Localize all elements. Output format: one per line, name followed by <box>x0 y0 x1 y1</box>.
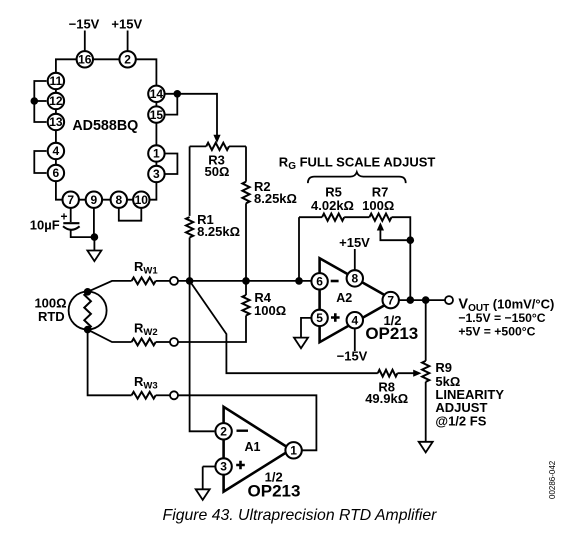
wire R2 to R4 <box>245 203 247 295</box>
pin 3 <box>148 166 164 182</box>
svg-text:4: 4 <box>351 313 358 327</box>
pin 10 <box>133 192 149 208</box>
pin 4 A2 V- <box>347 312 363 328</box>
svg-text:+15V: +15V <box>111 17 142 32</box>
wire A2 output to terminal <box>399 299 445 301</box>
connector terminal RW2 <box>170 338 178 346</box>
svg-text:8.25kΩ: 8.25kΩ <box>254 191 297 206</box>
wire left rail R3 to R1 <box>189 146 191 216</box>
svg-text:+5V = +500°C: +5V = +500°C <box>458 325 535 339</box>
resistor R8 49.9k <box>378 370 398 377</box>
wire R8 to R9 wiper <box>397 372 414 374</box>
svg-text:2: 2 <box>220 425 227 439</box>
wire -15V to pin 16 <box>84 31 86 51</box>
svg-text:2: 2 <box>124 53 131 67</box>
pin 6 <box>48 165 64 181</box>
A1 plus sign <box>236 461 245 470</box>
svg-text:4: 4 <box>53 144 60 158</box>
svg-text:A1: A1 <box>245 440 261 454</box>
wire R5 to R7 <box>344 216 369 218</box>
pin 5 A2 noninverting <box>311 310 327 326</box>
junction R5 rail / pin 6 <box>295 277 303 285</box>
op-amp A2 triangle <box>320 258 394 342</box>
pin 1 <box>148 145 164 161</box>
svg-text:50Ω: 50Ω <box>205 164 230 179</box>
pin 2 <box>119 51 135 67</box>
wire A2 pin 5 to ground <box>301 318 311 338</box>
svg-text:RW2: RW2 <box>134 321 158 339</box>
wire to ground symbol <box>93 237 95 250</box>
svg-text:10: 10 <box>135 193 149 207</box>
resistor R7 100 ohm trimmer <box>369 214 391 221</box>
wire capacitor to ground node <box>71 230 95 237</box>
svg-text:8.25kΩ: 8.25kΩ <box>197 224 240 239</box>
pin 8 <box>111 192 127 208</box>
wire pin 15 tie <box>165 94 177 115</box>
resistor RW3 <box>132 392 156 399</box>
pin 9 <box>86 192 102 208</box>
svg-text:13: 13 <box>49 115 63 129</box>
pin 4 <box>48 143 64 159</box>
junction right rail / output <box>407 296 415 304</box>
svg-text:10µF: 10µF <box>30 218 60 233</box>
A2 plus sign <box>331 313 340 322</box>
svg-text:1: 1 <box>153 147 160 161</box>
wire bracket pins 8-10 <box>119 208 142 221</box>
wire bracket pins 1-3 <box>165 154 177 175</box>
pin 12 <box>48 93 64 109</box>
wire R5 rail down to pin 6 line <box>298 217 300 281</box>
svg-text:RG FULL SCALE ADJUST: RG FULL SCALE ADJUST <box>279 154 436 172</box>
pin 14 <box>148 86 164 102</box>
A1 minus sign <box>237 430 249 432</box>
R3 wiper arrowhead <box>213 135 220 143</box>
wire A1 pin 3 to ground <box>202 467 204 490</box>
wire pin 7 to capacitor C1 <box>70 208 72 222</box>
svg-text:OP213: OP213 <box>365 324 418 343</box>
wire pin 12 stub <box>34 100 46 102</box>
wire R7 right lead / right rail <box>392 217 411 300</box>
wire R3 left lead <box>190 145 207 147</box>
svg-text:8: 8 <box>115 193 122 207</box>
svg-text:−15V: −15V <box>69 17 100 32</box>
ground A1 pin 3 <box>196 489 210 500</box>
resistor R1 8.25k <box>186 217 193 238</box>
wire bracket pins 11-13 <box>34 81 46 122</box>
wire pin 9 to ground node <box>93 208 95 237</box>
pin 7 <box>62 192 78 208</box>
svg-text:49.9kΩ: 49.9kΩ <box>365 391 408 406</box>
brace over R5 and R7 <box>308 172 406 183</box>
pin 1 A1 output <box>285 442 301 458</box>
wire pin 4 to -15V <box>354 329 356 352</box>
resistor R9 5k trimmer <box>422 361 429 382</box>
pin 7 A2 output <box>383 292 399 308</box>
wire +15V to pin 8 <box>354 249 356 270</box>
svg-text:+15V: +15V <box>339 235 370 250</box>
junction R9 / output <box>422 296 430 304</box>
RTD sensor 100 ohm body <box>69 292 107 330</box>
svg-text:3: 3 <box>153 167 160 181</box>
junction wiper / right rail <box>407 236 415 244</box>
wire bracket pins 4-6 <box>34 151 46 173</box>
connector terminal RW1 <box>170 277 178 285</box>
ground below pin 9 <box>87 251 101 262</box>
svg-text:6: 6 <box>316 275 323 289</box>
junction RTD bottom node <box>84 326 92 334</box>
pin 8 A2 V+ <box>347 270 363 286</box>
svg-text:@1/2 FS: @1/2 FS <box>435 413 486 428</box>
wire RW1 to connector <box>156 280 170 282</box>
wire RW2 to R4 bottom <box>178 316 246 343</box>
svg-text:7: 7 <box>67 193 74 207</box>
svg-text:A2: A2 <box>336 291 352 305</box>
wire RW1 to A2 pin 6 line <box>178 280 311 282</box>
pin 13 <box>48 114 64 130</box>
svg-text:AD588BQ: AD588BQ <box>72 118 138 134</box>
svg-text:−15V: −15V <box>337 349 368 364</box>
junction pins 11-12-13 <box>31 97 39 105</box>
junction R2 / R4 node <box>242 277 250 285</box>
pin 2 A1 inverting <box>215 423 231 439</box>
A2 minus sign <box>331 280 339 283</box>
connector terminal RW3 <box>170 391 178 399</box>
svg-text:00286-042: 00286-042 <box>548 460 557 499</box>
wire R5 left lead <box>299 216 322 218</box>
pin 15 <box>148 106 164 122</box>
svg-text:OP213: OP213 <box>248 482 301 501</box>
svg-text:11: 11 <box>50 74 63 88</box>
wire right rail R3 to R2 <box>245 146 247 181</box>
resistor R2 8.25k <box>242 182 249 204</box>
wire pins 14-15 to R3 wiper <box>165 94 217 136</box>
svg-text:R9: R9 <box>435 360 452 375</box>
wire A1 pin 3 lead <box>203 466 215 468</box>
svg-text:Figure 43. Ultraprecision RTD: Figure 43. Ultraprecision RTD Amplifier <box>163 507 438 524</box>
RTD internal resistance zigzag <box>84 292 91 330</box>
svg-text:−1.5V = −150°C: −1.5V = −150°C <box>458 311 545 325</box>
resistor R5 4.02k <box>322 214 344 221</box>
ground R9 <box>419 442 433 453</box>
pin 3 A1 noninverting <box>215 458 231 474</box>
junction RTD top node <box>84 288 92 296</box>
wire RTD bottom rail to RW3 <box>88 330 132 396</box>
svg-text:7: 7 <box>387 293 394 307</box>
svg-text:15: 15 <box>150 108 164 122</box>
junction ground node <box>91 233 99 241</box>
wire +15V to pin 2 <box>127 31 129 51</box>
resistor R3 50 ohm <box>206 143 229 150</box>
capacitor C1 10uF curved plate <box>63 226 80 230</box>
svg-text:14: 14 <box>150 87 164 101</box>
wire RW1 node to R8 <box>190 281 378 373</box>
wire R7 wiper to rail <box>380 231 410 241</box>
svg-text:5: 5 <box>316 311 323 325</box>
svg-text:RTD: RTD <box>38 309 65 324</box>
wire output to R9 <box>425 300 427 361</box>
wire RTD top to RW1 <box>88 281 132 292</box>
pin 11 <box>48 73 64 89</box>
svg-text:6: 6 <box>53 166 60 180</box>
svg-text:RW1: RW1 <box>134 259 158 277</box>
op-amp A1 triangle <box>224 407 291 492</box>
pin 6 A2 inverting <box>311 273 327 289</box>
svg-text:100Ω: 100Ω <box>362 198 394 213</box>
wire RW3 to connector <box>156 394 170 396</box>
junction RW1 / R1 rail <box>186 277 194 285</box>
IC U1 AD588BQ body outline <box>56 59 156 199</box>
wire RW3 to A1 output <box>178 395 316 450</box>
capacitor C1 10uF top plate <box>63 222 79 224</box>
svg-text:3: 3 <box>220 460 227 474</box>
resistor R4 100 ohm <box>242 295 249 316</box>
svg-text:RW3: RW3 <box>134 374 158 392</box>
pin 16 <box>77 51 93 67</box>
svg-text:1: 1 <box>290 444 297 458</box>
wire left rail down to A1 pin 2 <box>190 238 215 432</box>
wire R9 to ground <box>425 382 427 442</box>
wire RTD bottom to RW2 <box>88 330 132 342</box>
svg-text:12: 12 <box>49 94 63 108</box>
wire RW2 to connector <box>156 341 170 343</box>
svg-text:9: 9 <box>91 193 98 207</box>
svg-text:+: + <box>60 210 67 224</box>
junction pins 14-15 <box>174 90 182 98</box>
R9 wiper arrowhead <box>413 370 421 377</box>
resistor RW2 <box>132 339 156 346</box>
wire R3 right lead <box>229 145 246 147</box>
svg-text:16: 16 <box>78 53 92 67</box>
resistor RW1 <box>132 278 156 285</box>
terminal VOUT <box>445 296 453 304</box>
svg-text:8: 8 <box>351 272 358 286</box>
R7 wiper arrowhead <box>377 222 384 230</box>
svg-text:4.02kΩ: 4.02kΩ <box>311 198 354 213</box>
svg-text:100Ω: 100Ω <box>254 303 286 318</box>
ground A2 pin 5 <box>294 338 308 349</box>
